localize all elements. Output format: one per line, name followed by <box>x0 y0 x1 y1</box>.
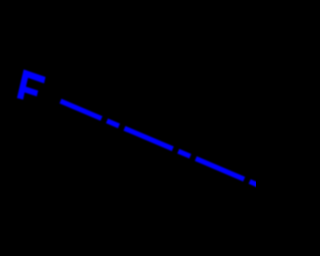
wire: dashed force line <box>61 101 259 185</box>
node F: rotated force label <box>18 70 45 99</box>
